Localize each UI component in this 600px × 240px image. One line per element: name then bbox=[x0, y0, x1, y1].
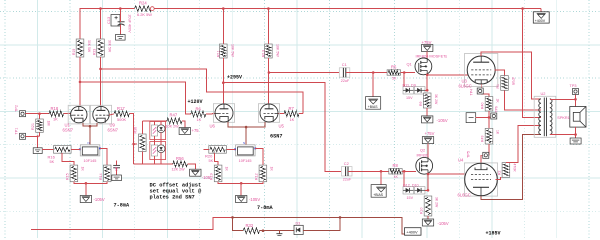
svg-text:+75: +75 bbox=[192, 128, 200, 133]
tube U6 bbox=[213, 104, 234, 123]
wire U4 plate bbox=[481, 135, 541, 200]
wire sec top bbox=[550, 98, 577, 101]
transformer U2 bbox=[534, 91, 556, 137]
svg-text:5K: 5K bbox=[209, 159, 214, 163]
wire U4 g2 bbox=[496, 177, 506, 179]
ground C18 bbox=[112, 175, 122, 181]
svg-text:R36: R36 bbox=[134, 127, 138, 134]
wire Q2 out bbox=[428, 173, 469, 175]
label +400V box bbox=[405, 228, 422, 236]
svg-text:1K: 1K bbox=[394, 175, 399, 179]
svg-text:+185V: +185V bbox=[486, 230, 501, 236]
svg-text:-105V: -105V bbox=[249, 197, 260, 202]
wire R11 to U6 bbox=[222, 58, 224, 104]
svg-text:R14: R14 bbox=[99, 173, 103, 180]
svg-text:500K: 500K bbox=[117, 117, 126, 122]
svg-text:+400V: +400V bbox=[406, 230, 418, 235]
svg-text:470R: 470R bbox=[511, 77, 515, 86]
resistor R40 bbox=[481, 97, 500, 111]
svg-text:C13: C13 bbox=[106, 17, 111, 24]
svg-text:R12: R12 bbox=[255, 173, 259, 180]
svg-text:plates 2nd SN7: plates 2nd SN7 bbox=[150, 195, 195, 201]
wire to +BIAS bottom bbox=[380, 171, 382, 184]
wire U9 plate bbox=[100, 57, 102, 107]
wire R16 left bbox=[42, 148, 53, 150]
svg-text:+400V: +400V bbox=[535, 19, 546, 23]
svg-text:R11: R11 bbox=[217, 50, 221, 57]
wire R20 wiper bbox=[214, 153, 218, 165]
svg-text:30K 5W: 30K 5W bbox=[87, 40, 91, 53]
wire Q2 source bbox=[427, 173, 430, 191]
wire input bbox=[26, 112, 50, 115]
svg-text:R13: R13 bbox=[262, 50, 266, 57]
resistor R9 bbox=[419, 89, 438, 108]
svg-text:R5: R5 bbox=[391, 64, 397, 69]
svg-text:6SN7: 6SN7 bbox=[270, 134, 282, 140]
optocoupler V1 bbox=[150, 122, 166, 140]
ground C13 bbox=[116, 35, 126, 41]
svg-text:470R: 470R bbox=[513, 164, 517, 173]
svg-text:7-8mA: 7-8mA bbox=[114, 203, 130, 209]
transistor Q2 bbox=[416, 148, 433, 175]
resistor R49 bbox=[481, 128, 500, 144]
svg-text:20uF 400V: 20uF 400V bbox=[127, 15, 131, 34]
svg-text:+120V: +120V bbox=[188, 99, 203, 105]
potentiometer R16 bbox=[48, 146, 72, 165]
svg-text:R2: R2 bbox=[497, 170, 501, 175]
resistor R32 bbox=[243, 223, 259, 234]
svg-text:10K 2W: 10K 2W bbox=[166, 124, 180, 128]
node C13 top bbox=[119, 7, 122, 10]
svg-text:R17: R17 bbox=[117, 106, 125, 111]
resistor R19b bbox=[210, 165, 229, 182]
resistor R17 bbox=[109, 106, 129, 122]
svg-text:U5: U5 bbox=[279, 123, 285, 128]
resistor R11 bbox=[217, 7, 235, 58]
resistor R13 bbox=[262, 7, 280, 58]
svg-text:D11, D9: D11, D9 bbox=[403, 83, 416, 87]
wire R36 wiper bbox=[134, 143, 138, 145]
svg-text:-105V: -105V bbox=[437, 118, 448, 123]
ground input bbox=[33, 148, 42, 154]
resistor R8 bbox=[389, 163, 402, 179]
wire spk bottom bbox=[574, 127, 577, 138]
resistor R24 bbox=[135, 1, 153, 17]
wire fb right bbox=[303, 216, 341, 231]
svg-text:1K: 1K bbox=[114, 167, 118, 172]
wire R56 to -105 bbox=[187, 164, 195, 169]
wire B+ rail left bbox=[80, 9, 135, 39]
testpoint TP5 bbox=[467, 151, 489, 158]
resistor R12 bbox=[255, 165, 274, 182]
wire Q1 source bbox=[426, 74, 429, 91]
svg-text:R9: R9 bbox=[419, 101, 423, 106]
wire U1 plate bbox=[79, 57, 81, 107]
svg-text:3K 2W: 3K 2W bbox=[434, 94, 438, 105]
resistor R1 bbox=[496, 76, 515, 91]
capacitor C18 bbox=[107, 161, 120, 176]
wire to +BIAS top bbox=[372, 73, 374, 97]
resistor R23 bbox=[92, 39, 111, 57]
svg-text:10F145: 10F145 bbox=[84, 159, 97, 163]
svg-text:R8: R8 bbox=[393, 163, 399, 168]
svg-text:-105V: -105V bbox=[94, 197, 105, 202]
wire +75 to Q2 bbox=[427, 144, 429, 158]
svg-text:+BIAS: +BIAS bbox=[373, 193, 383, 197]
svg-text:R1: R1 bbox=[496, 84, 500, 89]
svg-text:22uF: 22uF bbox=[343, 178, 352, 182]
svg-text:10K 5W: 10K 5W bbox=[276, 44, 280, 57]
wire U3 plate bbox=[481, 52, 541, 99]
label U1 bbox=[63, 123, 74, 133]
svg-text:R23: R23 bbox=[92, 49, 96, 55]
svg-text:1K: 1K bbox=[197, 117, 202, 122]
power -105V Q2 bbox=[422, 219, 449, 226]
resistor R47 bbox=[166, 112, 183, 128]
wire R7 to U5 bbox=[278, 113, 284, 115]
svg-text:TP1: TP1 bbox=[15, 128, 19, 135]
svg-text:R49: R49 bbox=[481, 136, 485, 142]
resistor R14 bbox=[99, 165, 118, 182]
text 7-8mA right bbox=[257, 205, 273, 211]
wire Q1 out bbox=[427, 74, 468, 76]
power +75V Q1 bbox=[422, 45, 433, 52]
svg-text:R24: R24 bbox=[139, 1, 147, 6]
label +185V bbox=[486, 230, 501, 236]
svg-text:R18: R18 bbox=[51, 106, 59, 111]
svg-text:TP3: TP3 bbox=[570, 84, 577, 88]
svg-text:R10: R10 bbox=[420, 208, 424, 214]
svg-text:C1: C1 bbox=[342, 62, 347, 67]
svg-text:10K 5W: 10K 5W bbox=[231, 44, 235, 57]
power -105V right bbox=[236, 196, 261, 203]
label IRF820 MOSFETs bbox=[416, 53, 448, 58]
label 6SN7 black bbox=[270, 134, 282, 140]
resistor R19 bbox=[72, 39, 91, 57]
text DC offset bbox=[150, 183, 203, 201]
wire R20 to box2 bbox=[226, 148, 235, 150]
svg-text:R20: R20 bbox=[205, 153, 213, 158]
svg-text:6SN7: 6SN7 bbox=[108, 127, 119, 132]
speaker SPKR1 bbox=[557, 107, 586, 128]
wire bottom long bbox=[31, 218, 405, 235]
svg-text:TP2: TP2 bbox=[15, 105, 19, 112]
capacitor C bottom bbox=[276, 231, 282, 236]
svg-text:U4: U4 bbox=[458, 158, 464, 163]
resistor R15 bbox=[66, 165, 85, 182]
svg-text:U2: U2 bbox=[541, 91, 546, 96]
wire R49 to U4 cathode bbox=[481, 144, 489, 163]
wire R1 to tap bbox=[505, 90, 542, 110]
resistor R56 bbox=[172, 156, 188, 172]
wire R16 wiper bbox=[62, 153, 74, 165]
svg-text:5K: 5K bbox=[392, 76, 397, 80]
capacitor C2 bbox=[342, 161, 353, 182]
label U3 bbox=[459, 78, 472, 88]
wire R6 to U6 bbox=[206, 113, 215, 116]
svg-text:SPKR1: SPKR1 bbox=[557, 116, 569, 120]
svg-text:TP6: TP6 bbox=[495, 106, 499, 112]
resistor R10 bbox=[420, 189, 439, 216]
svg-text:30K 5W: 30K 5W bbox=[107, 40, 111, 53]
svg-text:Q1: Q1 bbox=[407, 61, 412, 66]
wire C1 to R5 bbox=[346, 71, 387, 74]
testpoint TP2 bbox=[15, 105, 26, 117]
testpoint TP3 bbox=[570, 84, 579, 99]
wire R8 to Q2 bbox=[402, 170, 416, 173]
svg-text:1M: 1M bbox=[47, 121, 51, 126]
wire R40 to R49 bbox=[488, 111, 491, 128]
resistor R5 bbox=[387, 64, 400, 80]
wire R18 to U1 grid bbox=[64, 113, 71, 115]
wire vactrol bottom bbox=[134, 160, 173, 165]
svg-text:1K: 1K bbox=[53, 117, 58, 122]
wire sec to spk bbox=[575, 99, 577, 106]
svg-text:R19: R19 bbox=[72, 49, 76, 55]
svg-text:6.2K 5W: 6.2K 5W bbox=[137, 12, 152, 17]
wire sec bottom bbox=[550, 134, 576, 136]
wire fb branch left bbox=[231, 216, 243, 231]
svg-text:1K: 1K bbox=[81, 167, 85, 172]
wire U9 plate tap bbox=[99, 68, 303, 114]
optocoupler V2 bbox=[150, 142, 166, 160]
wire fb mid bbox=[260, 229, 295, 232]
wire R5 to Q1 bbox=[401, 71, 416, 74]
svg-text:3K 2W: 3K 2W bbox=[435, 197, 439, 208]
wire ccs2 bottom bbox=[218, 182, 263, 196]
wire U5 plate tap bbox=[268, 71, 341, 74]
power +BIAS bottom bbox=[371, 185, 386, 198]
resistor R36 bbox=[134, 121, 147, 164]
wire U6 plate tap bbox=[222, 81, 341, 171]
svg-text:+75V: +75V bbox=[425, 131, 435, 136]
testpoint TP1 bbox=[15, 128, 26, 140]
svg-text:1K: 1K bbox=[496, 130, 500, 135]
tube U5 bbox=[258, 104, 279, 123]
svg-text:10F145: 10F145 bbox=[239, 159, 252, 163]
connector J1 bbox=[466, 113, 489, 123]
node R23 top bbox=[99, 7, 102, 39]
wire TP1 node bbox=[26, 132, 40, 148]
wire vactrol mid bbox=[155, 140, 162, 142]
svg-text:IRF820 MOSFETs: IRF820 MOSFETs bbox=[416, 53, 448, 58]
svg-text:R7: R7 bbox=[289, 106, 295, 111]
wire box2 right bbox=[255, 149, 263, 166]
wire vactrol top bbox=[142, 120, 167, 123]
label U5 bbox=[279, 123, 285, 128]
power -105 R56 bbox=[190, 169, 211, 180]
testpoint TP6 bbox=[491, 106, 499, 119]
wire R47 to +75 bbox=[182, 121, 185, 128]
svg-text:R47: R47 bbox=[170, 112, 178, 117]
testpoint TP4 bbox=[469, 88, 483, 96]
ccs U2a 10F145 bbox=[79, 141, 101, 163]
svg-text:D3: D3 bbox=[296, 221, 301, 225]
resistor R18 bbox=[49, 106, 64, 122]
svg-text:12K 2W: 12K 2W bbox=[172, 168, 186, 172]
svg-text:1K: 1K bbox=[496, 99, 500, 104]
svg-text:U3: U3 bbox=[462, 78, 468, 83]
svg-text:R56: R56 bbox=[176, 156, 184, 161]
tube U4 bbox=[464, 163, 497, 196]
wire U3 g2 bbox=[495, 70, 505, 76]
svg-text:7-8mA: 7-8mA bbox=[257, 205, 273, 211]
svg-text:U6: U6 bbox=[210, 123, 216, 128]
svg-text:R6: R6 bbox=[196, 106, 202, 111]
svg-text:R21: R21 bbox=[31, 123, 35, 130]
power -105V Q1 bbox=[422, 116, 448, 123]
svg-text:+295V: +295V bbox=[227, 75, 242, 81]
wire +75 to Q1 bbox=[426, 52, 428, 59]
transistor Q1 bbox=[407, 58, 432, 75]
svg-text:D12, D10: D12, D10 bbox=[403, 183, 419, 187]
wire cathodes U6 U5 bbox=[228, 122, 265, 145]
wire R13 to U5 bbox=[267, 58, 269, 104]
wire R2 to tap bbox=[506, 125, 541, 162]
svg-text:R15: R15 bbox=[66, 173, 70, 180]
svg-text:1K: 1K bbox=[270, 167, 274, 172]
wire U3 cathode bbox=[481, 84, 489, 97]
svg-text:15V: 15V bbox=[407, 196, 414, 200]
label +120V bbox=[188, 99, 203, 105]
ground speaker bbox=[570, 138, 581, 144]
power +400V flag bbox=[523, 9, 550, 24]
wire +400 to CT bbox=[521, 7, 541, 117]
resistor R2 bbox=[497, 163, 516, 178]
svg-text:R16: R16 bbox=[48, 155, 56, 160]
svg-text:5K: 5K bbox=[50, 160, 55, 164]
power +75 first bbox=[179, 128, 199, 135]
power +BIAS top bbox=[366, 97, 381, 110]
wire R20 left stub bbox=[203, 148, 209, 150]
wire ccs1 bottom bbox=[74, 182, 107, 196]
resistor R7 bbox=[284, 106, 303, 122]
resistor R21 bbox=[31, 114, 51, 133]
capacitor C13 bbox=[106, 9, 132, 35]
wire R17 down bbox=[129, 114, 135, 164]
text 7-8mA left bbox=[114, 203, 130, 209]
svg-text:22uF: 22uF bbox=[341, 79, 350, 83]
label U9 bbox=[108, 123, 119, 133]
svg-text:R32: R32 bbox=[246, 223, 254, 228]
wire U1 plate tap bbox=[79, 81, 191, 115]
svg-text:N: N bbox=[88, 141, 90, 145]
svg-text:15V: 15V bbox=[406, 96, 413, 100]
label U4 bbox=[458, 158, 464, 163]
ccs U2b 10F145 bbox=[234, 141, 256, 163]
wire cathodes U1 U9 bbox=[83, 123, 97, 145]
svg-text:1K: 1K bbox=[225, 167, 229, 172]
wire R9 down bbox=[426, 108, 428, 116]
label +75V Q2 bbox=[425, 131, 435, 136]
svg-text:C2: C2 bbox=[344, 161, 349, 166]
svg-text:TP4: TP4 bbox=[469, 89, 473, 96]
wire R16 to box1 bbox=[71, 148, 80, 150]
potentiometer R20 bbox=[205, 146, 226, 163]
svg-text:R40: R40 bbox=[481, 103, 485, 109]
label U6 bbox=[210, 123, 216, 128]
resistor R6 bbox=[191, 106, 206, 122]
svg-text:Q2: Q2 bbox=[420, 148, 425, 153]
wire R10 down bbox=[427, 216, 429, 219]
capacitor C1 bbox=[339, 62, 350, 83]
svg-text:TP5: TP5 bbox=[467, 151, 471, 158]
label +295V bbox=[227, 75, 242, 81]
svg-text:N: N bbox=[243, 141, 245, 145]
tube U1 bbox=[68, 105, 89, 124]
wire C2 to R8 bbox=[348, 170, 390, 173]
svg-text:6L6GC: 6L6GC bbox=[459, 84, 472, 89]
diode D3 bbox=[294, 221, 303, 234]
svg-text:+75V: +75V bbox=[422, 40, 432, 45]
wire B+ rail right bbox=[150, 7, 522, 11]
power +75V Q2 bbox=[422, 137, 433, 144]
wire box1 right bbox=[100, 149, 107, 166]
svg-text:-105V: -105V bbox=[438, 221, 449, 226]
svg-text:+BIAS: +BIAS bbox=[368, 105, 378, 109]
tube U3 bbox=[465, 53, 498, 86]
tube U9 bbox=[90, 105, 111, 124]
svg-text:R19: R19 bbox=[210, 173, 214, 180]
svg-text:6L6GC: 6L6GC bbox=[458, 193, 471, 198]
diodes D11 D9 bbox=[403, 73, 428, 100]
label U4 6L6GC bbox=[458, 193, 471, 198]
svg-text:IRF820: IRF820 bbox=[417, 154, 429, 158]
diodes D12 D10 bbox=[403, 171, 428, 200]
power -105V left bbox=[80, 196, 105, 203]
label +75V Q1 bbox=[422, 40, 432, 45]
svg-text:6SN7: 6SN7 bbox=[63, 127, 74, 132]
svg-text:1K: 1K bbox=[290, 117, 295, 122]
